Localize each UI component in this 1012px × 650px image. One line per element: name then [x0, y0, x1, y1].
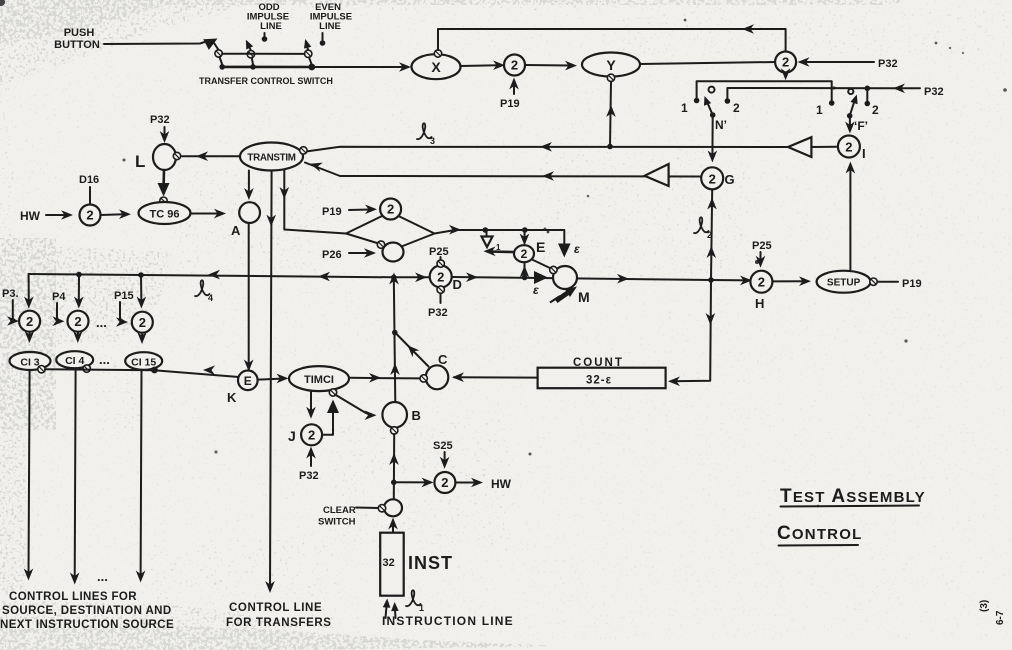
svg-text:2: 2 [733, 101, 740, 115]
svg-text:P4: P4 [52, 291, 66, 303]
wire instruction line arrows [383, 598, 399, 618]
wire P25 to D [440, 257, 442, 260]
adder 2 (P3) [19, 311, 40, 332]
inhibit node D top [437, 260, 444, 267]
wire l2 vertical [707, 190, 717, 281]
gate D (adder 2) [430, 266, 452, 288]
wire TIMCI to C (through B riser) [349, 373, 420, 383]
wire P19 to adder [509, 78, 519, 95]
svg-text:P25: P25 [429, 246, 449, 258]
svg-text:NEXT INSTRUCTION SOURCE: NEXT INSTRUCTION SOURCE [0, 619, 174, 631]
gate M egg [553, 266, 577, 289]
wire l4 bus to E gate bottom [520, 263, 530, 280]
wire CI4 drop [70, 368, 80, 584]
adder 2 (P15) [132, 312, 153, 333]
svg-text:ε: ε [533, 283, 539, 297]
node bar2 junction [865, 86, 871, 92]
wire adder to TC96 [101, 209, 132, 219]
svg-text:(3): (3) [979, 600, 990, 612]
wire E gate to M inhibit [532, 260, 551, 269]
inhibit node D bottom [437, 286, 444, 293]
wire switch bank bar 2 [727, 88, 920, 101]
svg-text:2: 2 [758, 275, 765, 290]
wire S25 to adder [440, 452, 450, 469]
svg-text:TRANSFER CONTROL SWITCH: TRANSFER CONTROL SWITCH [199, 76, 333, 86]
M brush wedge [550, 287, 577, 303]
svg-text:...: ... [96, 315, 107, 330]
svg-text:I: I [862, 146, 866, 161]
gate G [701, 167, 723, 189]
register TC96 [139, 202, 191, 224]
arrow into H [740, 276, 752, 286]
switch S2 wiper [242, 38, 254, 64]
svg-text:P32: P32 [878, 58, 898, 70]
node l4 P15 junction [138, 272, 144, 278]
svg-text:A: A [231, 223, 241, 238]
wire TRANSTIM to L [182, 151, 240, 161]
wire Y inhibit drop to line l3 [606, 82, 616, 150]
wire E gate to delta [484, 247, 514, 257]
svg-text:TIMCI: TIMCI [304, 374, 334, 386]
svg-text:P32: P32 [428, 307, 448, 319]
wire B down to junction [389, 434, 399, 500]
wire L to TC96 (solid arrow) [158, 170, 170, 197]
svg-text:SOURCE, DESTINATION AND: SOURCE, DESTINATION AND [2, 605, 172, 617]
adder 2 (P19 top) [504, 55, 525, 76]
gate C egg [426, 365, 449, 389]
svg-text:TEST ASSEMBLY: TEST ASSEMBLY [780, 486, 926, 507]
svg-text:J: J [288, 428, 296, 444]
svg-text:K: K [227, 390, 237, 405]
svg-text:P25: P25 [752, 240, 772, 252]
wire H to SETUP [773, 276, 812, 286]
svg-text:INSTRUCTION LINE: INSTRUCTION LINE [382, 614, 514, 628]
svg-text:...: ... [99, 352, 110, 367]
wire HW to adder [46, 210, 73, 220]
wire P15 adder to CI15 [137, 332, 147, 344]
wire K bus CI to E [45, 365, 239, 377]
wire push-button to transfer switch [104, 33, 220, 50]
wire TRANSTIM drop to P19/P26 mixer [280, 171, 347, 234]
inhibit node TIMCI bottom [329, 389, 336, 396]
wire l2 down to COUNT [668, 280, 715, 386]
wire D16 to adder [89, 187, 91, 204]
arrow M to H [617, 274, 629, 284]
svg-text:3: 3 [430, 136, 435, 146]
gate H (adder 2) [750, 271, 772, 293]
svg-text:L: L [135, 152, 145, 171]
switch N' wiper [701, 87, 716, 118]
epsilon solid arrow on bus into M [534, 271, 548, 284]
wire P32 to L [160, 127, 170, 143]
svg-text:G: G [725, 172, 735, 187]
wire adder to Y [525, 61, 577, 71]
arrow P32 into bar 2 [893, 84, 905, 94]
svg-text:N’: N’ [715, 118, 727, 132]
gate X [412, 54, 461, 79]
svg-text:P32: P32 [299, 470, 319, 482]
svg-text:D16: D16 [79, 174, 99, 186]
svg-text:SWITCH: SWITCH [318, 517, 356, 528]
svg-text:Y: Y [606, 57, 616, 73]
svg-text:PUSH: PUSH [64, 27, 95, 39]
wire P32 to D [440, 294, 442, 303]
wire P3 to adder [7, 300, 19, 326]
wire l4 to P4 adder [74, 275, 84, 309]
adder 2 (P4) [68, 311, 89, 332]
inhibit node on M [550, 266, 557, 273]
register CI4 [56, 351, 93, 368]
inhibit node clear switch [378, 505, 385, 512]
wire bus to E gate [520, 230, 530, 246]
svg-text:E: E [536, 239, 545, 255]
gate E (adder 2) [514, 245, 534, 262]
svg-text:2: 2 [845, 140, 852, 155]
label l2 [694, 217, 712, 240]
svg-text:CONTROL LINE: CONTROL LINE [229, 602, 322, 614]
wire switch top bar [222, 53, 304, 55]
svg-text:32-ε: 32-ε [586, 375, 612, 387]
label EVEN IMPULSE LINE [310, 2, 352, 32]
node E riser top [522, 227, 528, 233]
page mark L-9 rotated [995, 610, 1006, 625]
label CLEAR SWITCH [318, 505, 356, 528]
svg-text:P19: P19 [500, 98, 520, 110]
wire Y to adder 2 right [640, 62, 775, 64]
adder 2 (HW/D16) [80, 205, 101, 226]
svg-text:ε: ε [574, 242, 580, 256]
wire INST to clear gate [388, 518, 398, 533]
wire TRANSTIM long drop (control line for transfers) [265, 171, 276, 594]
wire P15 to adder [116, 302, 128, 327]
label ODD IMPULSE LINE [247, 2, 289, 32]
inhibit node CI15 [151, 367, 158, 374]
wire mixer to epsilon bus [435, 225, 565, 247]
wire K gate to TIMCI [258, 374, 289, 384]
wire B riser to l4 [389, 273, 400, 403]
wire F to gate I [845, 116, 855, 134]
wire triangle to gate I [811, 146, 837, 148]
wire CI3 drop [24, 370, 34, 581]
gate L [153, 144, 176, 170]
wire TIMCI down to J [306, 391, 316, 419]
svg-text:P32: P32 [150, 114, 170, 126]
svg-text:C: C [438, 352, 448, 367]
label l1 [406, 590, 424, 613]
wire N' to gate G [708, 115, 718, 163]
adder 2 (S25) [434, 472, 455, 493]
wire X to adder P19 [461, 60, 506, 70]
gate K (E circle) [238, 371, 258, 391]
title TEST ASSEMBLY [780, 486, 926, 507]
switch S1 wiper [214, 43, 222, 65]
wire TIMCI inhibit to B [335, 395, 377, 421]
wire even impulse stub [320, 33, 326, 46]
wire A down to K gate [244, 223, 254, 372]
inhibit node on X [434, 50, 441, 57]
wire C diagonal to B riser [392, 330, 429, 367]
wire X feedback up and right [438, 24, 786, 50]
svg-text:CONTROL: CONTROL [777, 523, 862, 544]
mixer diamond wires [346, 216, 435, 247]
wire P4 to adder [53, 303, 65, 326]
wire line l3 [306, 142, 787, 152]
switch F wiper [847, 89, 861, 119]
inhibit node B bottom [391, 427, 398, 434]
wire l4 to P15 adder [137, 275, 147, 309]
node l2 crossing on l4 [708, 277, 714, 283]
wire CI15 drop [136, 370, 146, 583]
svg-text:1: 1 [419, 603, 424, 613]
svg-text:2: 2 [709, 171, 716, 186]
inhibit node on TRANSTIM [300, 147, 307, 154]
arrow l4 left of B riser [318, 272, 330, 282]
register CI15 [125, 352, 162, 370]
svg-text:P19: P19 [902, 278, 922, 290]
svg-text:2: 2 [707, 230, 712, 240]
svg-text:32: 32 [383, 557, 395, 569]
svg-text:S25: S25 [433, 440, 453, 452]
wire junction leg to contact 2 [866, 88, 868, 102]
svg-text:TC 96: TC 96 [150, 209, 180, 221]
register COUNT box [538, 368, 666, 389]
arrow l4 left mid [208, 270, 220, 280]
svg-text:P26: P26 [322, 249, 342, 261]
gate B egg [382, 402, 407, 428]
title CONTROL [777, 523, 862, 546]
svg-text:P15: P15 [114, 290, 134, 302]
wire l4 bus main [29, 274, 750, 280]
svg-text:1: 1 [681, 101, 688, 115]
wire P25 to H [756, 252, 766, 268]
svg-text:TRANSTIM: TRANSTIM [247, 153, 295, 164]
wire P26 into mixer gate [349, 248, 376, 258]
svg-text:2: 2 [437, 270, 444, 285]
svg-text:CLEAR: CLEAR [323, 505, 356, 516]
svg-text:INST: INST [408, 553, 453, 573]
wire switch bottom bar [219, 64, 315, 71]
epsilon solid arrow into M top [558, 244, 571, 258]
wire adder to HW out [456, 478, 483, 488]
label l4 [195, 280, 213, 303]
svg-text:P3.: P3. [2, 288, 19, 300]
switch S3 wiper [302, 38, 312, 65]
svg-text:SETUP: SETUP [827, 278, 861, 289]
wire P32 to J [306, 447, 316, 467]
wire J up to TIMCI inhibit (solid arrow) [323, 400, 340, 435]
wire switch bank bar 1 [697, 81, 832, 101]
svg-text:HW: HW [20, 209, 41, 223]
inhibit node on TC96 [160, 197, 167, 204]
inhibit node CI4 [83, 365, 90, 372]
svg-text:BUTTON: BUTTON [54, 39, 100, 51]
wire TC96 to A [191, 209, 227, 219]
svg-text:...: ... [97, 569, 108, 584]
gate I [838, 136, 860, 158]
buffer triangle on line 2 [645, 164, 669, 186]
node bar1 left contact 1 [694, 98, 700, 104]
svg-text:E: E [244, 374, 252, 388]
node bar2 contact 2 right [865, 101, 871, 107]
wire TRANSTIM drop to A [244, 171, 254, 201]
wire adder down to switch bank [781, 68, 791, 80]
label PUSH BUTTON [54, 27, 100, 51]
adder 2 (P19 mixer) [380, 199, 401, 220]
svg-text:P32: P32 [924, 86, 944, 98]
delay delta symbol [482, 230, 502, 252]
svg-text:1: 1 [816, 103, 823, 117]
svg-text:B: B [412, 408, 421, 423]
svg-text:‘F’: ‘F’ [854, 119, 868, 133]
svg-text:CI 4: CI 4 [65, 355, 84, 367]
gate P26 egg [383, 243, 404, 262]
wire odd impulse stub [262, 33, 268, 42]
wire COUNT to C [452, 372, 537, 382]
svg-text:2: 2 [521, 247, 528, 261]
gate clear-switch egg [384, 499, 402, 516]
svg-text:COUNT: COUNT [573, 357, 624, 369]
buffer triangle on l3 [788, 137, 811, 157]
wire SETUP up to gate I [846, 162, 856, 271]
register TIMCI [289, 366, 349, 391]
wire P32 to adder right [798, 57, 875, 67]
register INST box [380, 533, 404, 596]
adder 2 (J) [301, 424, 322, 445]
label l3 [417, 123, 435, 146]
wire SETUP to P19 [878, 281, 899, 283]
arrow into D [415, 273, 427, 283]
node l4 P4 junction [76, 272, 82, 278]
inhibit node on Y [607, 74, 614, 81]
page mark rotated [979, 600, 990, 612]
gate TRANSTIM [240, 143, 303, 171]
inhibit node CI3 [38, 366, 45, 373]
svg-text:4: 4 [208, 293, 213, 303]
inhibit node SETUP right [870, 278, 877, 285]
svg-text:CONTROL LINES FOR: CONTROL LINES FOR [9, 591, 137, 603]
gate A [239, 202, 260, 223]
svg-text:M: M [578, 289, 590, 305]
svg-text:CI 15: CI 15 [131, 357, 156, 369]
svg-text:HW: HW [491, 477, 512, 491]
svg-text:P19: P19 [322, 206, 342, 218]
gate Y [582, 53, 640, 77]
svg-text:2: 2 [872, 103, 879, 117]
svg-text:LINE: LINE [319, 21, 341, 32]
arrow after D [466, 272, 478, 282]
register SETUP [817, 271, 871, 293]
svg-text:LINE: LINE [260, 21, 282, 32]
inhibit node on L [173, 152, 180, 159]
adder 2 (top right) [775, 52, 796, 73]
node bar1 right contact 1 [829, 100, 835, 106]
wire line 2 TRANSTIM from G [305, 159, 701, 181]
svg-text:X: X [431, 59, 441, 75]
svg-text:FOR TRANSFERS: FOR TRANSFERS [226, 617, 332, 629]
wire l4 corner down to P3 adder [24, 274, 34, 309]
wire clear switch label to gate [356, 507, 378, 510]
register CI3 [10, 352, 51, 370]
svg-text:D: D [453, 277, 462, 292]
wire switch to X [312, 62, 411, 72]
node delta junction [483, 227, 489, 233]
wire P19 into mixer adder [349, 205, 377, 215]
wire P3 adder to CI3 [25, 331, 35, 343]
svg-text:H: H [755, 296, 764, 311]
svg-text:6-7: 6-7 [995, 610, 1006, 625]
wire junction to S25 adder [394, 478, 434, 488]
node bar2 contact 2 left [725, 98, 731, 104]
wire P4 adder to CI4 [73, 331, 83, 343]
inhibit node C left [420, 375, 427, 382]
svg-text:CI 3: CI 3 [20, 357, 39, 369]
inhibit node on P26 gate [377, 241, 384, 248]
